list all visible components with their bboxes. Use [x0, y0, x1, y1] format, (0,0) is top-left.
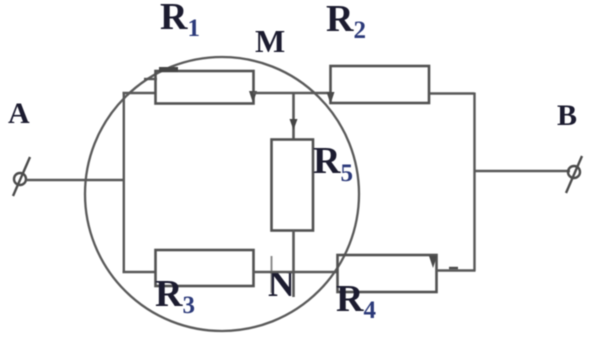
wire right bus to terminal B: [474, 170, 570, 172]
resistor R4: [338, 255, 437, 292]
svg-text:R4: R4: [336, 278, 376, 324]
terminal B: [566, 156, 582, 193]
resistor R3: [156, 250, 254, 286]
svg-text:R2: R2: [326, 0, 366, 44]
dash on wire right of R4: [449, 267, 458, 269]
wire node M down to R5: [292, 92, 295, 140]
resistor R2: [331, 66, 430, 103]
svg-text:R1: R1: [160, 0, 200, 42]
wire R1 to node M: [253, 92, 331, 94]
arrow mark on R1 top edge: [159, 67, 178, 72]
arrow on wire above R5: [290, 119, 298, 130]
stray tick left of N: [271, 256, 273, 293]
svg-text:R5: R5: [313, 140, 353, 187]
svg-text:M: M: [255, 23, 285, 59]
wire R3 to node N: [253, 271, 338, 273]
wire R5 to node N: [292, 230, 295, 297]
dash near R1 top-left: [144, 78, 157, 80]
wire left bus to R1: [123, 92, 157, 94]
circle (bridge boundary): [85, 57, 359, 331]
right bus wire: [473, 93, 475, 272]
resistor R5: [272, 140, 314, 231]
bottom rail left segment: [123, 271, 157, 273]
svg-text:R3: R3: [155, 273, 195, 319]
terminal A: [13, 157, 30, 196]
left bus wire: [123, 92, 125, 273]
wire R2 to right bus: [429, 92, 475, 94]
arrow on R2 left edge: [327, 92, 335, 104]
svg-text:N: N: [268, 264, 295, 305]
arrow on R1 right edge: [249, 91, 257, 103]
arrow on R4 right edge: [429, 256, 437, 268]
svg-text:A: A: [8, 97, 30, 130]
wire A to left bus: [26, 179, 124, 181]
resistor R1: [156, 71, 254, 104]
wire R4 to right bus: [437, 269, 476, 271]
svg-text:B: B: [557, 99, 577, 132]
